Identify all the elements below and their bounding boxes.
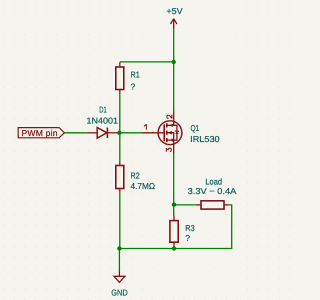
svg-text:PWM pin: PWM pin — [22, 128, 58, 138]
source pin 3 with mid connection — [167, 133, 174, 154]
body circle — [158, 121, 182, 145]
resistor R1 — [116, 62, 124, 94]
Q1 drain stub arrow — [172, 124, 175, 128]
channel top segment — [166, 123, 168, 127]
ground — [114, 272, 125, 283]
svg-text:IRL530: IRL530 — [190, 134, 220, 144]
drain pin 2 — [173, 112, 175, 126]
junction at source/load node — [172, 203, 176, 207]
gate bar — [163, 124, 165, 141]
junction at gate node — [117, 131, 121, 135]
svg-text:4.7MΩ: 4.7MΩ — [131, 181, 156, 191]
svg-text:R2: R2 — [131, 171, 140, 181]
load resistor (horizontal) — [196, 201, 230, 209]
drain stub and body-diode path — [167, 125, 177, 140]
pin number 1 — [144, 124, 146, 129]
svg-text:R3: R3 — [185, 223, 195, 233]
Q1 source stub arrow — [172, 138, 175, 142]
Q1 source arrow — [167, 131, 172, 135]
pin number 2 — [167, 115, 172, 118]
channel bottom segment — [166, 138, 168, 142]
wire Q1 source down — [173, 154, 175, 216]
svg-text:GND: GND — [111, 287, 128, 297]
resistor R2 — [116, 161, 124, 193]
wire top horizontal to R1 — [120, 61, 174, 63]
pin number 3 — [166, 148, 171, 151]
wire label to D1 anode — [64, 132, 87, 134]
svg-text:R1: R1 — [131, 70, 140, 80]
svg-text:?: ? — [131, 82, 136, 92]
transistor Q1 — [141, 112, 182, 154]
junction at R3 bottom — [172, 246, 176, 250]
diode D1 — [87, 128, 119, 139]
wire down to GND — [118, 249, 120, 272]
svg-text:D1: D1 — [99, 105, 107, 115]
junction at +5V rail — [172, 60, 176, 64]
channel middle segment — [166, 131, 168, 135]
svg-text:Q1: Q1 — [191, 123, 200, 133]
wire R2 bottom to gnd rail — [119, 193, 121, 249]
junction at gnd rail left — [117, 246, 121, 250]
svg-text:+5V: +5V — [166, 6, 183, 16]
svg-text:1N4001: 1N4001 — [87, 115, 119, 125]
wire gate node to Q1 gate pin — [119, 132, 142, 134]
wire gate node down to R2 — [119, 133, 121, 161]
wire +5V down to Q1 drain — [173, 29, 175, 111]
global label PWM pin — [18, 128, 64, 138]
wire source node to load — [174, 204, 196, 206]
power symbol +5V — [171, 19, 177, 30]
wire R1 bottom to gate node — [119, 94, 121, 133]
source stub — [167, 139, 174, 141]
resistor R3 — [170, 216, 178, 248]
gate pin 1 — [141, 132, 164, 134]
svg-text:?: ? — [185, 233, 190, 243]
Q1 body diode — [175, 131, 179, 134]
svg-text:3.3V − 0.4A: 3.3V − 0.4A — [188, 186, 237, 196]
wire load right down to gnd rail — [119, 205, 231, 249]
